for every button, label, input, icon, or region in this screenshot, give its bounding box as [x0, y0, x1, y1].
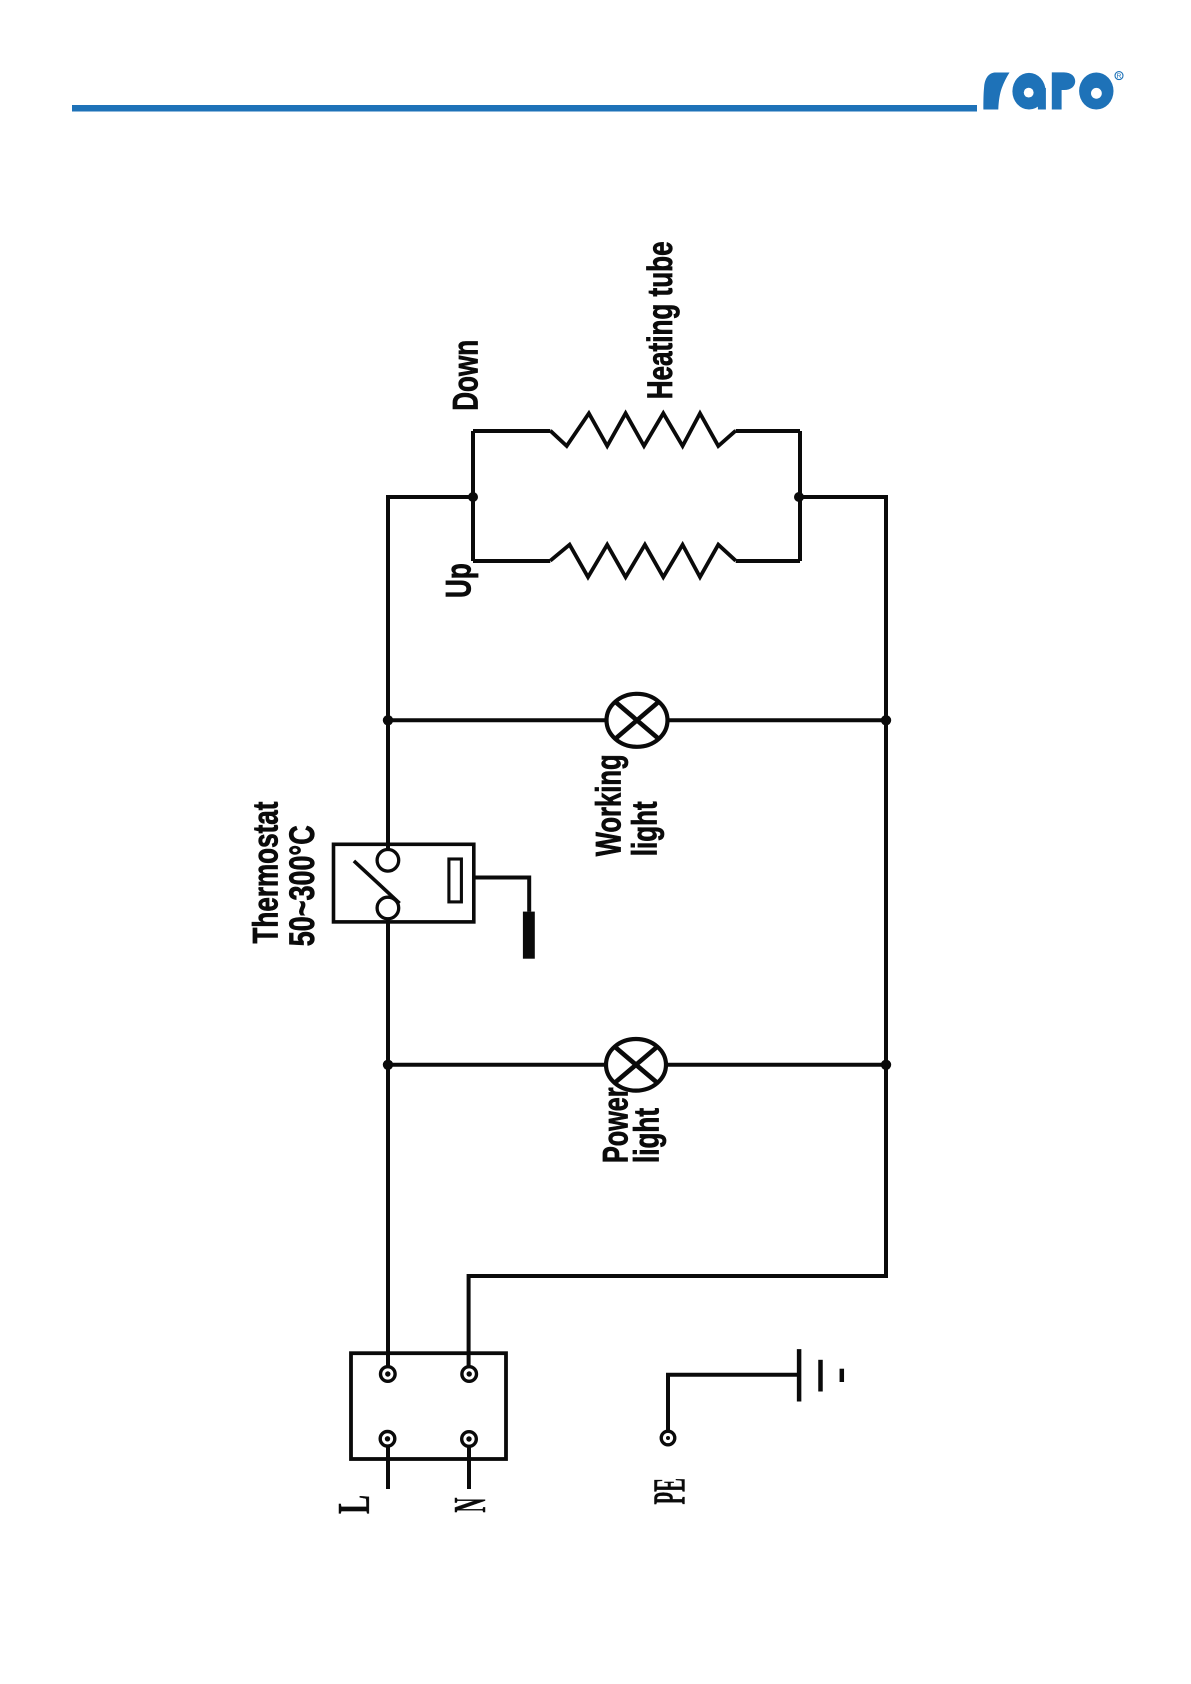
terminal block pin N-out — [462, 1432, 477, 1447]
node junction power light left — [383, 1060, 393, 1070]
wire bottom branch right lead — [736, 559, 800, 563]
svg-text:R: R — [1117, 73, 1122, 80]
svg-text:L: L — [329, 1495, 379, 1514]
node PE terminal — [661, 1431, 675, 1445]
svg-text:Working: Working — [590, 754, 629, 856]
wire thermostat sensor lead — [474, 878, 529, 912]
logo saro letter s — [983, 73, 1009, 110]
logo saro letter a — [1012, 73, 1046, 110]
header rule — [72, 105, 977, 112]
wire power-light row — [388, 1063, 886, 1067]
node junction at block left — [468, 492, 478, 502]
svg-text:Thermostat: Thermostat — [246, 802, 286, 944]
svg-text:Up: Up — [439, 563, 479, 598]
wire bottom branch left lead — [473, 559, 550, 563]
thermostat U1 body — [334, 844, 474, 922]
wire left bus lower segment — [386, 919, 390, 1367]
thermostat switch blade — [354, 861, 400, 903]
svg-text:N: N — [444, 1497, 496, 1512]
logo registered mark — [1115, 72, 1123, 81]
resistor heating tube Down — [550, 413, 735, 446]
wire L lead below terminal block — [386, 1446, 390, 1489]
node junction at block right — [794, 492, 804, 502]
wire working-light row — [388, 718, 886, 722]
ground earth symbol — [799, 1349, 842, 1401]
wire top branch left lead — [473, 429, 550, 433]
thermostat sensor slot — [449, 859, 462, 902]
svg-text:Down: Down — [446, 340, 486, 411]
svg-text:50~300°C: 50~300°C — [283, 825, 322, 946]
node junction working light left — [383, 715, 393, 725]
terminal block pin L-out — [380, 1432, 395, 1447]
wire top-right horizontal, right bus and N-bend — [469, 497, 886, 1367]
svg-text:PE: PE — [643, 1478, 695, 1504]
terminal block body — [351, 1353, 506, 1459]
wire PE lead — [668, 1375, 799, 1431]
terminal block pin N-in — [462, 1367, 477, 1382]
node junction working light right — [881, 715, 891, 725]
wire top branch right lead — [736, 429, 800, 433]
svg-text:light: light — [625, 801, 665, 856]
logo saro letter o — [1079, 73, 1113, 110]
lamp power light — [606, 1039, 666, 1091]
thermostat pin top terminal — [377, 850, 399, 872]
resistor heating tube Up — [550, 545, 735, 577]
thermostat pin bottom terminal — [377, 897, 399, 919]
node junction power light right — [881, 1060, 891, 1070]
svg-text:Heating tube: Heating tube — [640, 241, 680, 399]
terminal block pin L-in — [381, 1367, 396, 1382]
thermostat sensor probe bulb — [523, 912, 535, 959]
wire parallel-block right vertical — [798, 431, 802, 561]
wire N lead below terminal block — [467, 1446, 471, 1489]
wire top-left horizontal with left bus corner — [388, 497, 473, 849]
logo saro letter r — [1052, 72, 1075, 109]
lamp working light — [607, 694, 668, 747]
svg-text:light: light — [627, 1108, 667, 1163]
wire parallel-block left vertical — [471, 431, 475, 561]
